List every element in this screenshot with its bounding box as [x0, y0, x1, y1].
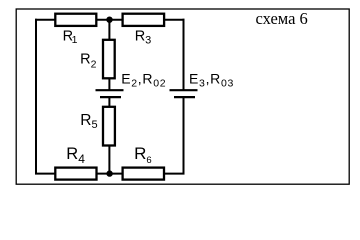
- resistor R2: [103, 40, 115, 79]
- wire: middle branch lower: [108, 98, 110, 174]
- battery E3 long plate: [170, 89, 198, 91]
- svg-text:схема 6: схема 6: [256, 9, 308, 28]
- battery E2 long plate: [96, 89, 124, 91]
- wire: bottom net: [35, 173, 185, 175]
- wire: right branch upper: [183, 19, 185, 90]
- resistor R4: [55, 168, 96, 180]
- resistor R3: [123, 14, 165, 26]
- border frame: [16, 9, 349, 184]
- wire: top net: [35, 19, 185, 21]
- node: top junction: [106, 17, 112, 23]
- node: bottom junction: [106, 170, 112, 176]
- resistor R5: [103, 107, 115, 146]
- wire: right branch lower: [183, 98, 185, 175]
- wire: left branch: [35, 19, 37, 175]
- resistor R1: [55, 14, 96, 26]
- battery E2 short plate: [100, 96, 121, 98]
- resistor R6: [123, 168, 164, 180]
- battery E3 short plate: [174, 96, 195, 98]
- wire: middle branch upper: [108, 20, 110, 90]
